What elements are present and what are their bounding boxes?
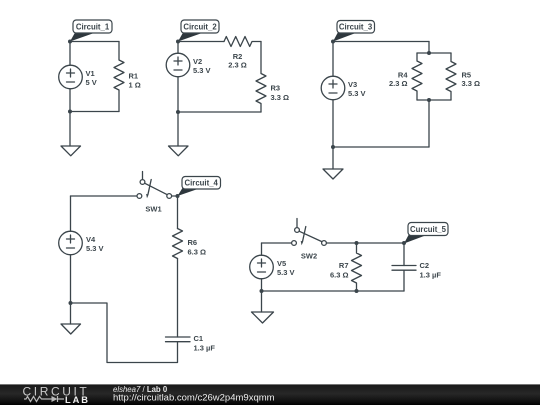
wire R6 top lead	[177, 196, 179, 229]
SW1 designator label	[145, 205, 161, 214]
R4 designator and value label 2.3 Ω	[389, 71, 408, 89]
wire V2 top lead	[177, 42, 179, 54]
svg-text:1.3 µF: 1.3 µF	[194, 343, 216, 352]
wire V5 bottom lead	[261, 279, 263, 291]
V3 designator and value label 5.3 V	[348, 80, 366, 98]
wire V1 top lead	[69, 42, 71, 66]
wire to ground circuit 3	[332, 147, 334, 169]
junction node circuit 1 bottom	[68, 110, 72, 114]
svg-text:Circuit_1: Circuit_1	[76, 22, 110, 31]
junction node parallel bottom	[427, 98, 431, 102]
wire top rail left circuit 2	[178, 41, 224, 43]
voltage source V3	[321, 76, 345, 100]
junction node R7 bottom	[355, 289, 359, 293]
svg-text:SW1: SW1	[145, 205, 161, 214]
svg-text:Circuit_2: Circuit_2	[183, 22, 217, 31]
voltage source V4	[59, 231, 83, 255]
R5 designator and value label 3.3 Ω	[462, 71, 481, 89]
svg-text:6.3 Ω: 6.3 Ω	[188, 247, 207, 256]
capacitor C1	[166, 337, 191, 342]
voltage source V5	[250, 255, 274, 279]
node label Circuit_3	[333, 21, 375, 42]
wire V2 bottom lead	[177, 77, 179, 112]
svg-text:R6: R6	[188, 238, 198, 247]
wire V3 bottom lead	[332, 100, 334, 147]
ground circuit 3	[323, 169, 343, 179]
node A3 (junction dot)	[331, 40, 335, 44]
node label Curcuit_5	[404, 223, 448, 244]
switch SW2	[292, 219, 327, 246]
wire V4 top lead	[70, 196, 72, 231]
wire switch to node circuit 4	[172, 195, 178, 197]
wire parallel bottom bar	[417, 99, 451, 101]
wire V3 top lead	[332, 42, 334, 77]
svg-text:SW2: SW2	[301, 251, 317, 260]
node A4 (junction dot)	[176, 194, 180, 198]
wire top rail circuit 3	[333, 41, 429, 43]
resistor R5	[446, 53, 456, 100]
V1 designator and value label 5 V	[86, 69, 97, 87]
wire top rail circuit 1	[70, 41, 119, 43]
svg-text:R2: R2	[233, 52, 243, 61]
wire to ground circuit 1	[69, 112, 71, 147]
svg-text:5 V: 5 V	[86, 78, 97, 87]
logo resistor symbol	[24, 396, 52, 401]
svg-text:2.3 Ω: 2.3 Ω	[228, 61, 247, 70]
junction node circuit 5 bottom left	[260, 289, 264, 293]
svg-text:1 Ω: 1 Ω	[129, 80, 141, 89]
svg-text:R7: R7	[339, 261, 349, 270]
resistor R2	[224, 37, 261, 47]
wire R6 to C1	[177, 259, 179, 338]
svg-text:LAB: LAB	[65, 395, 90, 405]
wire switch to C2 top circuit 5	[326, 242, 404, 244]
resistor R7	[352, 243, 362, 291]
wire parallel branch bottom stub	[428, 100, 430, 147]
wire parallel branch top stub	[428, 42, 430, 54]
wire to ground circuit 4	[70, 303, 72, 324]
node A1 (junction dot)	[68, 40, 72, 44]
R6 designator and value label 6.3 Ω	[188, 238, 207, 256]
svg-text:R1: R1	[129, 72, 139, 81]
junction node parallel top	[427, 51, 431, 55]
R1 designator and value label 1 Ω	[129, 72, 141, 90]
V4 designator and value label 5.3 V	[86, 235, 104, 253]
R7 designator and value label 6.3 Ω	[330, 261, 349, 279]
junction node circuit 4 bottom	[69, 301, 73, 305]
svg-text:2.3 Ω: 2.3 Ω	[389, 79, 408, 88]
junction node circuit 3 bottom	[331, 145, 335, 149]
wire C2 top lead	[403, 243, 405, 266]
wire V5 top lead	[261, 243, 263, 255]
svg-text:5.3 V: 5.3 V	[348, 89, 366, 98]
svg-text:C2: C2	[420, 261, 430, 270]
node label Circuit_1	[70, 20, 112, 42]
junction node R7 top	[355, 241, 359, 245]
svg-text:R3: R3	[271, 84, 281, 93]
wire top rail left circuit 4	[71, 195, 138, 197]
ground circuit 1	[61, 146, 81, 156]
wire V4 bottom lead	[70, 255, 72, 303]
svg-text:1.3 µF: 1.3 µF	[420, 271, 442, 280]
ground circuit 5	[252, 312, 274, 323]
svg-text:5.3 V: 5.3 V	[86, 244, 104, 253]
svg-text:Circuit_4: Circuit_4	[185, 179, 219, 188]
voltage source V1	[59, 65, 83, 89]
svg-text:http://circuitlab.com/c26w2p4m: http://circuitlab.com/c26w2p4m9xqmm	[113, 393, 275, 404]
svg-text:5.3 V: 5.3 V	[193, 66, 211, 75]
svg-text:V3: V3	[348, 80, 357, 89]
svg-text:5.3 V: 5.3 V	[277, 268, 295, 277]
node label Circuit_2	[178, 20, 219, 42]
wire bottom rail circuit 2	[178, 111, 261, 113]
wire V1 bottom lead	[69, 89, 71, 112]
wire bottom rail circuit 5	[262, 290, 405, 292]
V5 designator and value label 5.3 V	[277, 259, 295, 277]
resistor R6	[173, 229, 183, 259]
svg-text:3.3 Ω: 3.3 Ω	[462, 79, 481, 88]
svg-text:Curcuit_5: Curcuit_5	[410, 225, 447, 234]
switch SW1	[137, 172, 172, 199]
svg-text:V1: V1	[86, 69, 95, 78]
svg-text:V5: V5	[277, 259, 286, 268]
V2 designator and value label 5.3 V	[193, 57, 211, 75]
wire bottom rail circuit 3	[333, 146, 429, 148]
wire to ground circuit 2	[177, 112, 179, 146]
wire to ground circuit 5	[261, 291, 263, 312]
SW2 designator label	[301, 251, 317, 260]
R3 designator and value label 3.3 Ω	[271, 84, 290, 102]
svg-text:Circuit_3: Circuit_3	[339, 23, 373, 32]
voltage source V2	[166, 53, 190, 77]
resistor R4	[412, 53, 422, 100]
C1 designator and value label 1.3 µF	[194, 334, 216, 352]
ground circuit 2	[169, 146, 189, 156]
junction node circuit 2 bottom	[176, 110, 180, 114]
svg-text:V2: V2	[193, 57, 202, 66]
logo diode symbol	[52, 396, 58, 402]
wire bottom rail circuit 1	[70, 111, 119, 113]
C2 designator and value label 1.3 µF	[420, 261, 442, 280]
capacitor C2	[392, 266, 416, 271]
wire C1 bottom lead and return path	[71, 303, 178, 363]
svg-text:3.3 Ω: 3.3 Ω	[271, 93, 290, 102]
wire parallel top bar	[417, 52, 451, 54]
resistor R1	[114, 42, 124, 112]
node A5 (junction dot)	[402, 241, 406, 245]
R2 designator and value label 2.3 Ω	[228, 52, 247, 70]
svg-text:V4: V4	[86, 235, 96, 244]
node label Circuit_4	[178, 177, 221, 197]
resistor R3	[256, 42, 266, 113]
wire top rail left circuit 5	[262, 242, 292, 244]
node A2 (junction dot)	[176, 40, 180, 44]
svg-text:C1: C1	[194, 334, 204, 343]
wire C2 bottom lead	[403, 270, 405, 291]
ground circuit 4	[61, 324, 81, 334]
svg-text:6.3 Ω: 6.3 Ω	[330, 270, 349, 279]
